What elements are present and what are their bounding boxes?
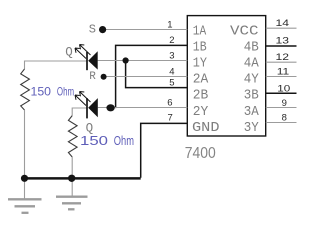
- LED D1 triangle: [88, 51, 98, 69]
- resistor R1 zigzag: [21, 69, 30, 110]
- wire R2 bottom through rail to ground: [71, 157, 73, 197]
- pin number 2: [169, 35, 174, 46]
- wire LED D2 cathode to resistor R2: [72, 108, 87, 116]
- ground symbol 1: [8, 199, 42, 213]
- wire right pin14 stub: [266, 27, 297, 29]
- resistor R1 value 150 Ohm: [31, 84, 75, 98]
- IC U1 label 7400: [185, 145, 216, 162]
- LED D2 cathode bar: [86, 98, 88, 118]
- IC pin name 2Y: [193, 105, 209, 120]
- svg-text:2Y: 2Y: [193, 105, 209, 120]
- svg-text:1Y: 1Y: [193, 57, 207, 72]
- svg-text:3A: 3A: [244, 105, 260, 120]
- svg-text:Q: Q: [65, 46, 73, 60]
- LED D2 light arrows: [75, 92, 91, 106]
- IC pin name 3Y: [244, 121, 259, 136]
- node R label: [89, 71, 96, 83]
- pin number 8: [282, 112, 287, 123]
- wire R1 bottom to ground rail: [24, 110, 26, 199]
- svg-text:Ohm: Ohm: [57, 84, 74, 98]
- svg-text:150: 150: [80, 133, 108, 148]
- LED D1 light arrows: [75, 45, 91, 59]
- svg-text:VCC: VCC: [230, 24, 259, 39]
- pin number 12: [276, 52, 290, 63]
- svg-text:2B: 2B: [193, 89, 209, 104]
- IC pin name VCC: [230, 24, 259, 39]
- IC pin name 3A: [244, 105, 260, 120]
- wire right pin8 stub: [266, 122, 297, 124]
- svg-text:12: 12: [276, 52, 290, 63]
- wire pin1 stub (S to 1A): [106, 29, 187, 31]
- svg-text:S: S: [89, 23, 96, 37]
- pin number 10: [277, 83, 290, 94]
- LED D2 triangle: [88, 98, 98, 117]
- LED D2 designator Q: [86, 121, 94, 135]
- LED D1 designator Q: [65, 46, 73, 60]
- pin number 1: [167, 20, 172, 31]
- svg-text:150: 150: [31, 84, 52, 98]
- junction dot rail left: [21, 175, 28, 182]
- IC pin name 4B: [244, 40, 259, 55]
- svg-text:1: 1: [167, 20, 172, 31]
- svg-text:R: R: [89, 71, 96, 83]
- svg-text:GND: GND: [192, 121, 220, 136]
- svg-text:2: 2: [169, 35, 174, 46]
- wire right pin12 stub: [266, 61, 297, 63]
- wire LED D1 anode to 1Y branch left segment: [25, 61, 88, 69]
- ground symbol 2: [56, 197, 88, 210]
- wire pin3 stub (1Y to LED): [98, 60, 188, 62]
- pin number 5: [169, 77, 174, 88]
- IC pin name 1B: [193, 40, 207, 55]
- wire ground rail (black): [25, 177, 141, 180]
- pin number 13: [276, 36, 290, 47]
- IC pin name 4Y: [244, 73, 259, 88]
- svg-text:7400: 7400: [185, 145, 216, 162]
- IC pin name GND: [192, 121, 220, 136]
- pin number 9: [282, 98, 287, 109]
- svg-text:1B: 1B: [193, 40, 207, 55]
- svg-text:4B: 4B: [244, 40, 259, 55]
- svg-text:5: 5: [169, 77, 174, 88]
- wire right pin11 stub: [266, 76, 297, 78]
- svg-text:4: 4: [169, 67, 174, 78]
- pin number 7: [168, 113, 173, 124]
- pin number 4: [169, 67, 174, 78]
- wire right pin10 stub (black): [266, 92, 297, 94]
- svg-text:Ohm: Ohm: [114, 133, 134, 148]
- svg-text:3: 3: [169, 50, 174, 61]
- svg-text:7: 7: [168, 113, 173, 124]
- IC U1 7400 body: [187, 16, 265, 136]
- pin number 11: [277, 66, 290, 77]
- svg-text:14: 14: [276, 18, 290, 29]
- svg-text:3Y: 3Y: [244, 121, 259, 136]
- pin number 3: [169, 50, 174, 61]
- svg-text:4Y: 4Y: [244, 73, 259, 88]
- node S terminal dot: [99, 26, 106, 33]
- svg-text:6: 6: [167, 98, 172, 109]
- svg-text:3B: 3B: [244, 89, 259, 104]
- IC pin name 4A: [244, 57, 260, 72]
- svg-text:2A: 2A: [193, 73, 209, 88]
- resistor R2 value 150 Ohm: [80, 133, 134, 148]
- IC pin name 2A: [193, 73, 209, 88]
- pin number 6: [167, 98, 172, 109]
- svg-text:8: 8: [282, 112, 287, 123]
- wire pin6 stub (2Y to LED): [98, 107, 188, 109]
- wire pin7 GND stub to ground rail (black): [141, 123, 188, 177]
- svg-text:1A: 1A: [193, 24, 207, 39]
- svg-text:10: 10: [277, 83, 290, 94]
- svg-text:11: 11: [277, 66, 290, 77]
- wire pin2 stub + cross-couple 2Y to 1B (black): [116, 45, 188, 108]
- wire cross-couple 1Y to 2B (black, pin5): [126, 61, 188, 88]
- junction node on pin3: [123, 57, 129, 63]
- IC pin name 2B: [193, 89, 209, 104]
- node R terminal dot: [101, 74, 107, 80]
- IC pin name 1A: [193, 24, 207, 39]
- svg-text:4A: 4A: [244, 57, 260, 72]
- IC pin name 1Y: [193, 57, 207, 72]
- svg-text:13: 13: [276, 36, 290, 47]
- wire right pin13 stub (black): [266, 45, 297, 47]
- wire right pin9 stub: [266, 107, 297, 109]
- IC pin name 3B: [244, 89, 259, 104]
- pin number 14: [276, 18, 290, 29]
- junction dot on pin6 wire: [106, 104, 114, 111]
- svg-text:9: 9: [282, 98, 287, 109]
- wire pin4 stub (R to 2A): [106, 76, 187, 78]
- LED D1 cathode bar: [86, 52, 88, 70]
- node S label: [89, 23, 96, 37]
- junction dot rail middle: [68, 175, 75, 182]
- resistor R2 zigzag: [68, 116, 77, 157]
